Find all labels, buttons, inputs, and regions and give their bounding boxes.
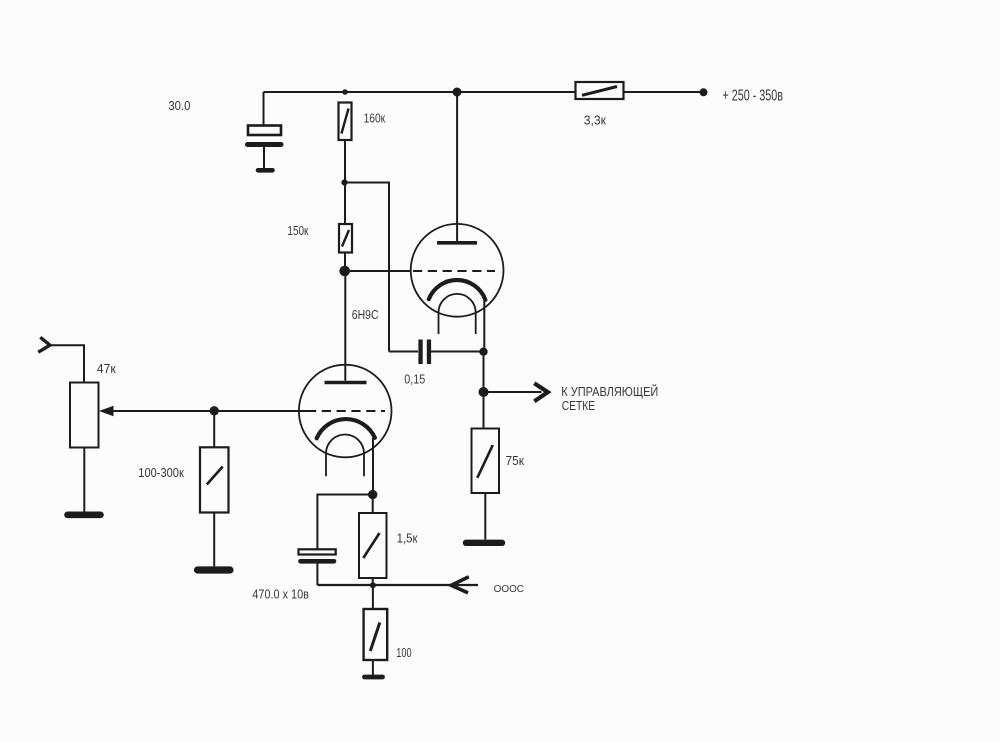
tube V2 anode plate bar [325, 381, 367, 385]
capacitor C3 470uF top plate [299, 549, 336, 554]
ground below 100-300k [198, 566, 231, 573]
node junction cap/cathode [479, 348, 487, 356]
wire junction down to 100-300k [213, 411, 215, 447]
wire 160k bottom to junction [344, 140, 346, 183]
wire cathode junction left then down to bypass cap [317, 495, 372, 550]
ground below C1 [258, 168, 273, 173]
svg-text:К УПРАВЛЯЮЩЕЙ: К УПРАВЛЯЮЩЕЙ [561, 384, 658, 399]
ground below 75k [466, 540, 502, 546]
capacitor C2 0.15 left plate [418, 340, 422, 365]
resistor R1 160k body [339, 103, 352, 141]
wire feedback node down to 100 [372, 585, 374, 609]
pot wiper arrow head [99, 406, 114, 417]
capacitor C2 0.15 right plate [427, 340, 431, 365]
wire input to pot top [50, 345, 84, 382]
node grid/anode coupling junction [339, 266, 350, 277]
wire junction to the right then down to coupling cap [345, 183, 390, 352]
tube V1 anode lead [456, 92, 458, 241]
value label 3.3k [584, 112, 607, 127]
tube V1 cathode arc [429, 280, 486, 300]
svg-text:+ 250 - 350в: + 250 - 350в [723, 87, 784, 104]
value label 100-300k [138, 466, 184, 480]
node output junction [479, 387, 489, 397]
svg-text:ОООС: ОООС [494, 583, 525, 595]
potentiometer R5 47k body [70, 383, 99, 448]
wire junction to 150k top [344, 183, 346, 225]
wire cathode junction down to 1.5k [372, 495, 374, 513]
svg-text:0,15: 0,15 [404, 373, 425, 387]
tube V1 heater [439, 294, 476, 334]
capacitor C1 30.0 bottom plate [248, 142, 282, 147]
svg-text:100-300к: 100-300к [138, 466, 184, 480]
value label 0.15 [404, 373, 425, 387]
wire V2 cathode lead down [372, 438, 374, 495]
svg-text:75к: 75к [506, 454, 525, 468]
capacitor C3 470uF bottom plate [301, 559, 335, 564]
output label line2 [562, 399, 596, 413]
wire output node down to 75k [483, 392, 485, 429]
wire 150k bottom to grid node [344, 253, 346, 272]
node supply terminal dot [700, 88, 708, 96]
resistor R4 75k body [472, 429, 500, 494]
tube V1 type label 6N9S [352, 308, 379, 322]
tube V2 grid dashed line [307, 410, 385, 412]
wire pot bottom to ground [83, 448, 85, 512]
value label 30.0 [168, 99, 190, 113]
wire bypass cap down to feedback line [316, 564, 318, 586]
svg-text:150к: 150к [287, 224, 308, 238]
wire from rail down to capacitor 30.0 [263, 92, 265, 125]
tube V1 grid dashed line [413, 270, 495, 272]
value label 75k [506, 454, 525, 468]
value label 100 [396, 646, 411, 660]
node junction 160k/150k/coupling [341, 179, 347, 185]
wire capacitor C1 to ground [263, 147, 265, 168]
wire wiper to lower tube grid [113, 410, 307, 412]
value label 47k [97, 362, 116, 376]
wire 100-300k to ground [213, 513, 215, 567]
output arrow head [534, 383, 548, 401]
node cathode junction V2 [368, 490, 377, 499]
wire 1.5k bottom stub [372, 578, 374, 585]
input terminal fork [38, 337, 50, 352]
tube V2 heater [326, 435, 364, 477]
wire grid node to upper tube (solid part) [345, 270, 411, 272]
ground below pot [68, 511, 101, 518]
svg-text:30.0: 30.0 [168, 99, 190, 113]
svg-text:6Н9С: 6Н9С [352, 308, 379, 322]
svg-text:470.0 х 10в: 470.0 х 10в [252, 587, 309, 601]
supply label +250-350v [723, 87, 784, 104]
svg-text:1,5к: 1,5к [397, 532, 418, 546]
value label 1.5k [397, 532, 418, 546]
wire V1 cathode lead down [483, 300, 485, 352]
tube V1 anode plate bar [437, 241, 477, 245]
resistor R3 3.3k body [576, 82, 624, 99]
wire 100 to ground [372, 660, 374, 675]
wire top supply rail left segment [264, 91, 576, 93]
value label 150k [287, 224, 308, 238]
ground below 100 [365, 675, 383, 680]
tube V2 lower triode envelope [299, 365, 392, 458]
resistor R8 100 body [364, 609, 388, 660]
tube V1 6N9S upper triode envelope [411, 224, 504, 317]
resistor R2 150k body [339, 224, 352, 253]
capacitor C1 30.0 electrolytic top plate [248, 126, 281, 136]
node junction feedback/1.5k/100 [370, 582, 376, 588]
value label 160k [364, 111, 386, 126]
feedback arrow head [451, 577, 469, 593]
svg-text:47к: 47к [97, 362, 116, 376]
tube V2 cathode arc [317, 419, 375, 438]
wire output arrow shaft [484, 391, 542, 393]
feedback label OOOC [494, 583, 525, 595]
wire feedback line [317, 584, 478, 586]
svg-text:160к: 160к [364, 111, 386, 126]
value label 470.0 x 10v [252, 587, 309, 601]
svg-text:СЕТКЕ: СЕТКЕ [562, 399, 596, 413]
resistor R6 100-300k body [200, 447, 229, 512]
node junction wiper/grid-leak [210, 406, 219, 415]
svg-text:3,3к: 3,3к [584, 112, 607, 127]
node junction rail/160k [342, 89, 348, 95]
output label line1 [561, 384, 658, 399]
wire coupling cap left lead [389, 351, 418, 353]
wire 75k to ground [484, 493, 486, 540]
svg-text:100: 100 [396, 646, 411, 660]
node junction rail/anode V1 [453, 88, 462, 97]
wire top supply rail right segment [624, 91, 704, 93]
wire grid node down to lower tube anode [344, 271, 346, 381]
wire coupling cap right to cathode line [431, 351, 484, 353]
resistor R7 1.5k body [359, 513, 387, 578]
wire cathode junction down to output node [483, 352, 485, 392]
